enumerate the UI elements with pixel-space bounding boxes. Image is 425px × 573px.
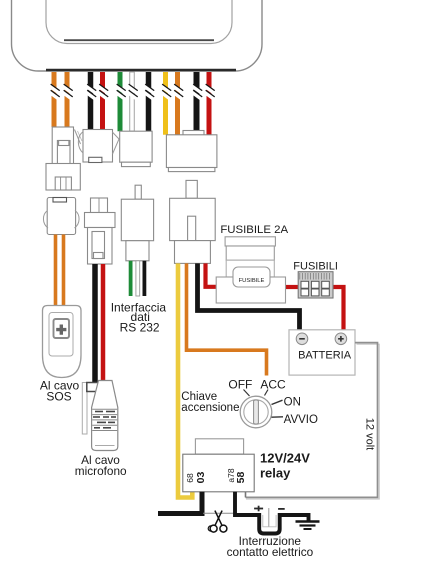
wire W3 black from device bbox=[88, 72, 94, 130]
device handle slot bbox=[46, 0, 232, 44]
svg-text:12V/24V: 12V/24V bbox=[260, 450, 310, 465]
wire red to microphone bbox=[101, 264, 106, 381]
connector J3 upper (mic) bbox=[78, 130, 119, 163]
wire black to microphone bbox=[92, 264, 98, 383]
ignition key switch bbox=[240, 396, 272, 428]
thin cut wire under scissors bbox=[203, 512, 234, 514]
GPS device body bbox=[12, 0, 263, 71]
label 12V/24V relay bbox=[260, 450, 310, 480]
minus mark bbox=[278, 508, 285, 510]
wire white RS232 bbox=[136, 261, 140, 296]
svg-text:OFF: OFF bbox=[228, 377, 252, 391]
svg-text:FUSIBILE 2A: FUSIBILE 2A bbox=[220, 224, 288, 236]
connector J2 lower (SOS female with wings) bbox=[43, 198, 79, 235]
cut mark on wire W2 orange bbox=[61, 84, 72, 100]
battery BATTERIA bbox=[289, 330, 355, 375]
cut mark on wire W4 red bbox=[97, 84, 108, 100]
wire W7 black from device bbox=[146, 72, 152, 131]
cut mark on wire W9 orange bbox=[172, 84, 183, 100]
cut mark on wire W5 green bbox=[114, 84, 125, 100]
relay pin 85 stub to 12 volt bbox=[245, 492, 247, 498]
wire W9 orange from device bbox=[175, 72, 180, 135]
SOS button fob bbox=[43, 306, 82, 378]
label Al cavo SOS bbox=[40, 379, 80, 404]
tick ON bbox=[272, 400, 283, 404]
wire green RS232 bbox=[129, 261, 133, 296]
svg-text:FUSIBILE: FUSIBILE bbox=[239, 278, 265, 284]
wire red to fuse holder bbox=[206, 263, 218, 286]
svg-text:contatto elettrico: contatto elettrico bbox=[227, 545, 314, 559]
fuse box F2 bbox=[298, 272, 333, 298]
cut mark on wire W3 black bbox=[85, 84, 96, 100]
label Al cavo microfono bbox=[75, 453, 127, 478]
svg-text:03: 03 bbox=[195, 472, 207, 484]
label Chiave accensione bbox=[181, 391, 239, 414]
svg-text:accensione: accensione bbox=[181, 402, 239, 414]
svg-text:FUSIBILI: FUSIBILI bbox=[293, 260, 338, 272]
relay body 12V/24V bbox=[183, 454, 254, 492]
scissors bbox=[208, 511, 227, 532]
connector J5 upper (RS232) bbox=[120, 131, 152, 166]
cut mark on wire W1 orange bbox=[48, 84, 59, 100]
connector J1 upper (SOS male) bbox=[46, 127, 82, 190]
microphone bbox=[82, 381, 118, 451]
label Interruzione contatto elettrico bbox=[227, 534, 314, 559]
cut mark on wire W11 red bbox=[203, 84, 214, 100]
plus mark bbox=[254, 506, 263, 512]
ground symbol bbox=[296, 522, 320, 530]
tick AVVIO bbox=[272, 416, 284, 418]
svg-text:ACC: ACC bbox=[260, 377, 286, 391]
svg-text:58: 58 bbox=[235, 472, 247, 484]
cut mark on wire W10 black bbox=[191, 84, 202, 100]
label Interfaccia dati RS 232 bbox=[111, 300, 167, 334]
wire W10 black from device bbox=[194, 72, 200, 135]
device bottom edge bbox=[46, 69, 236, 72]
wire W2 orange from device bbox=[65, 72, 70, 127]
svg-text:68: 68 bbox=[185, 473, 195, 483]
wire W4 red from device bbox=[100, 72, 105, 130]
svg-text:microfono: microfono bbox=[75, 464, 127, 478]
svg-text:12 volt: 12 volt bbox=[364, 418, 376, 450]
svg-text:relay: relay bbox=[260, 466, 291, 481]
svg-text:RS 232: RS 232 bbox=[120, 320, 160, 334]
wire W8 yellow from device bbox=[163, 72, 168, 135]
wire relay pin 87a to cup and ground bbox=[235, 492, 309, 534]
wire black RS232 bbox=[142, 261, 146, 296]
wire W6 white from device bbox=[130, 72, 135, 131]
tick OFF bbox=[244, 390, 250, 397]
connector J8 lower (power) bbox=[170, 180, 216, 263]
relay top block bbox=[195, 439, 243, 454]
wire orange to SOS right bbox=[62, 235, 66, 306]
svg-text:AVVIO: AVVIO bbox=[284, 414, 318, 426]
cup inner line bbox=[263, 515, 276, 527]
fuse holder F1 bbox=[216, 237, 285, 303]
svg-text:ON: ON bbox=[284, 397, 301, 409]
wire W11 red from device bbox=[207, 72, 212, 135]
wire red fuse holder to fuse box bbox=[285, 285, 299, 289]
wire 12 volt loop bbox=[246, 343, 380, 499]
probe wire into cup bbox=[268, 508, 270, 527]
svg-text:SOS: SOS bbox=[46, 389, 71, 403]
wire W1 orange from device bbox=[52, 72, 57, 127]
connector J4 lower (mic) bbox=[85, 198, 116, 264]
tick ACC bbox=[265, 390, 269, 396]
svg-text:BATTERIA: BATTERIA bbox=[298, 350, 352, 362]
wire yellow to relay pin 86 bbox=[178, 263, 192, 497]
cut mark on wire W6 white bbox=[126, 84, 137, 100]
wire orange to SOS left bbox=[54, 235, 58, 306]
wire black to battery minus bbox=[198, 263, 300, 330]
wire relay pin 30 cut branch bbox=[158, 492, 202, 514]
connector J6 lower (RS232) bbox=[121, 185, 153, 261]
cut mark on wire W7 black bbox=[143, 84, 154, 100]
wire W5 green from device bbox=[118, 72, 123, 131]
wire red fuse box to battery plus bbox=[333, 287, 344, 330]
wire orange to ignition ACC bbox=[187, 263, 267, 375]
connector J7 upper (power) bbox=[166, 131, 217, 172]
cut mark on wire W8 yellow bbox=[160, 84, 171, 100]
